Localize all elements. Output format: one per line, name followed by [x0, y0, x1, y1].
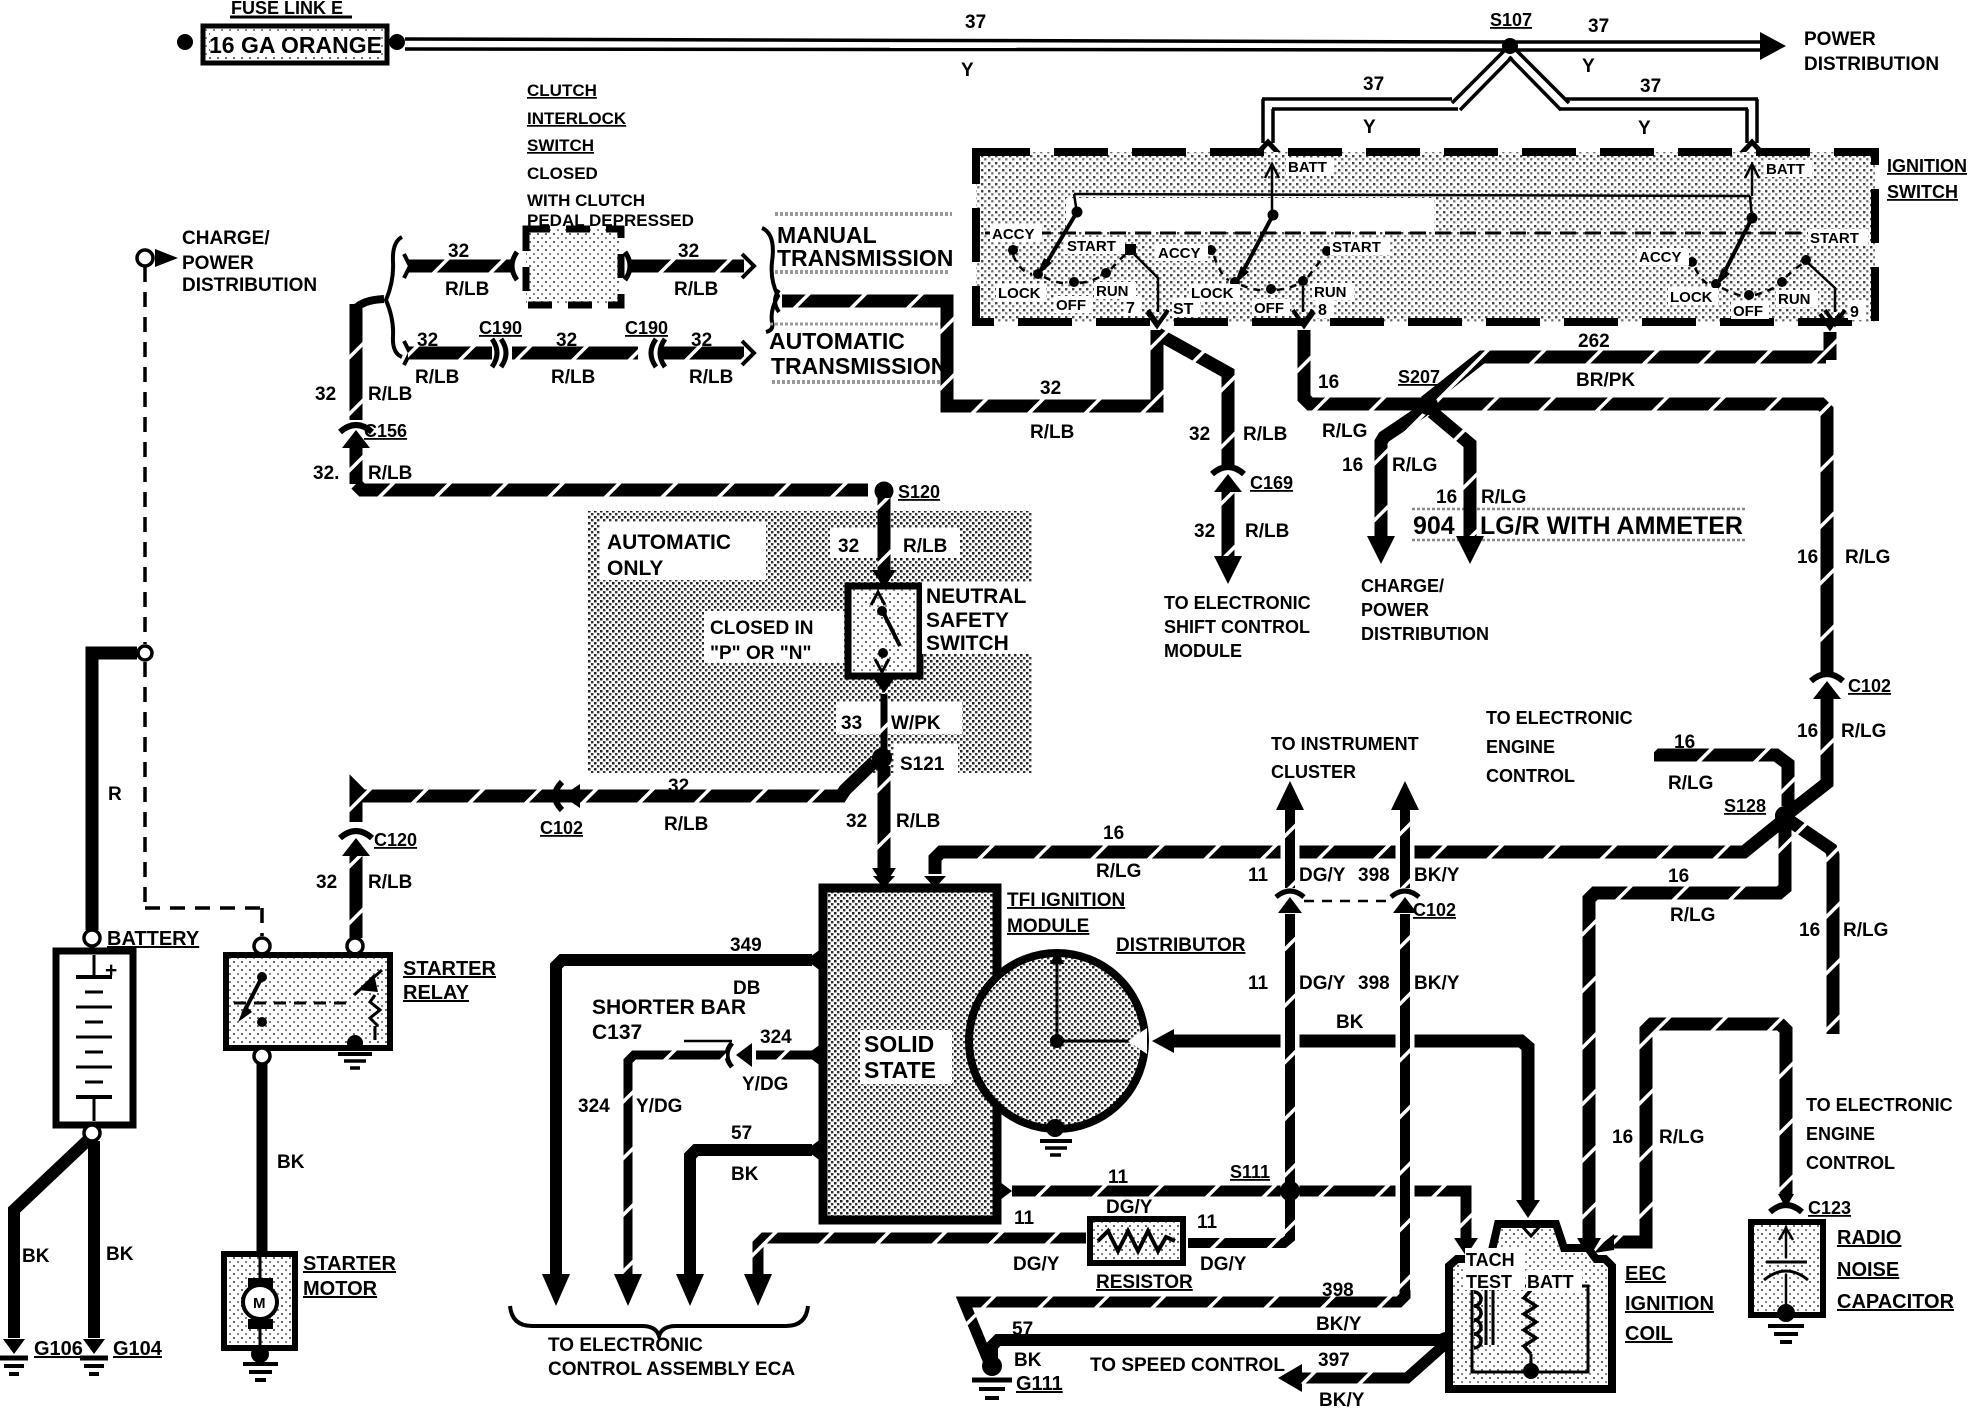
wire 33 W/PK NSS to S121: [874, 679, 894, 750]
svg-text:16: 16: [1668, 866, 1689, 887]
text block CLUTCH INTERLOCK SWITCH CLOSED WITH CLUTCH PEDAL DEPRESSED: [527, 81, 694, 230]
splice coil primary node: [1436, 1332, 1456, 1352]
svg-text:ACCY: ACCY: [1158, 245, 1201, 262]
svg-text:SWITCH: SWITCH: [926, 632, 1009, 655]
svg-text:16: 16: [1318, 372, 1339, 393]
ignition internal BATT bus line: [1074, 194, 1752, 218]
svg-text:R/LG: R/LG: [1843, 920, 1888, 941]
svg-text:EEC: EEC: [1625, 1263, 1666, 1285]
svg-text:Y: Y: [1582, 56, 1595, 77]
svg-text:S121: S121: [900, 754, 945, 775]
wire 32 auto transmission segment 3: [662, 341, 754, 365]
ground G104: [80, 1338, 163, 1374]
svg-text:STARTER: STARTER: [403, 958, 497, 980]
svg-text:POWER: POWER: [1361, 600, 1429, 620]
svg-text:G104: G104: [113, 1338, 163, 1360]
svg-text:IGNITION: IGNITION: [1887, 156, 1967, 176]
wire 324 Y/DG TFI via C137 to ECA: [614, 1041, 812, 1306]
svg-text:LOCK: LOCK: [1670, 289, 1713, 306]
wire 11 DG/Y instrument cluster vertical: [1188, 781, 1304, 1243]
connector C190 second: [625, 318, 668, 367]
starter relay box: [226, 938, 390, 1064]
svg-text:CLOSED IN: CLOSED IN: [710, 618, 813, 639]
connector C120: [340, 830, 417, 856]
svg-text:LG/R WITH AMMETER: LG/R WITH AMMETER: [1480, 512, 1743, 540]
battery: [56, 930, 133, 1141]
svg-text:SOLID: SOLID: [864, 1031, 934, 1057]
svg-text:32.: 32.: [313, 463, 339, 484]
text MANUAL TRANSMISSION (highlighted): [775, 214, 953, 272]
svg-text:C102: C102: [1413, 900, 1456, 920]
svg-text:OFF: OFF: [1056, 297, 1086, 314]
terminal arrow ST at ignition box: [1147, 312, 1167, 326]
svg-text:POWER: POWER: [1804, 29, 1876, 50]
svg-text:R/LG: R/LG: [1845, 547, 1890, 568]
wire 16 R/LG coil BATT up over to C123: [1594, 1024, 1794, 1253]
text AUTOMATIC TRANSMISSION (highlighted): [769, 324, 947, 382]
svg-text:324: 324: [760, 1027, 792, 1048]
wire BK distributor to EEC coil tower: [1152, 1029, 1540, 1218]
svg-text:NEUTRAL: NEUTRAL: [926, 585, 1026, 608]
connector C102 on horizontal wire: [540, 782, 583, 838]
text CHARGE/POWER DISTRIBUTION lower: [1361, 576, 1489, 644]
text RADIO NOISE CAPACITOR: [1837, 1227, 1955, 1313]
svg-text:7: 7: [1126, 300, 1135, 317]
svg-text:BK/Y: BK/Y: [1414, 865, 1460, 886]
svg-text:TO ELECTRONIC: TO ELECTRONIC: [548, 1335, 703, 1356]
svg-text:R/LG: R/LG: [1322, 421, 1367, 442]
wire 16 R/LG S128 down right branch: [1790, 821, 1833, 1034]
wire 16 R/LG terminal 8 to S207: [1304, 330, 1820, 404]
svg-text:C102: C102: [540, 818, 583, 838]
wire 32 R/LB horizontal to starter relay via C120: [356, 762, 874, 938]
wire 37 Y branch S107 to BATT terminal 2 (double line): [1509, 50, 1764, 155]
svg-text:398: 398: [1322, 1280, 1354, 1301]
svg-text:S207: S207: [1398, 367, 1440, 387]
svg-text:349: 349: [730, 935, 762, 956]
svg-text:CONTROL: CONTROL: [1486, 766, 1575, 786]
text SHORTER BAR C137: [592, 996, 746, 1044]
svg-text:57: 57: [731, 1123, 752, 1144]
distributor: [969, 950, 1147, 1129]
svg-text:904: 904: [1413, 512, 1455, 540]
svg-text:32: 32: [691, 330, 712, 351]
svg-text:G106: G106: [34, 1338, 83, 1360]
svg-text:R/LB: R/LB: [674, 279, 718, 300]
svg-text:BK: BK: [1336, 1012, 1364, 1033]
svg-text:BK: BK: [22, 1246, 50, 1267]
wire 398 BK/Y down to G111: [964, 1290, 1405, 1360]
svg-text:ENGINE: ENGINE: [1486, 737, 1555, 757]
svg-text:R/LG: R/LG: [1096, 861, 1141, 882]
node circle charge/power distribution: [137, 250, 153, 266]
svg-text:S128: S128: [1724, 796, 1766, 816]
text EEC IGNITION COIL: [1625, 1263, 1714, 1345]
svg-text:POWER: POWER: [182, 253, 254, 274]
svg-text:SHIFT CONTROL: SHIFT CONTROL: [1164, 617, 1310, 637]
wire 16 R/LG S207 right to C102 down right side: [1434, 404, 1827, 672]
svg-text:BATT: BATT: [1766, 161, 1805, 178]
ground under starter relay: [338, 1054, 372, 1068]
svg-text:SWITCH: SWITCH: [1887, 182, 1958, 202]
svg-text:IGNITION: IGNITION: [1625, 1293, 1714, 1315]
ground G106: [0, 1338, 83, 1374]
switch group 1 positions: [1008, 207, 1136, 288]
wire 397 BK/Y speed control: [1278, 1346, 1443, 1392]
svg-text:SAFETY: SAFETY: [926, 609, 1009, 632]
arrow charge/power distribution: [155, 249, 178, 267]
svg-text:R/LB: R/LB: [368, 384, 412, 405]
svg-text:32: 32: [1194, 521, 1215, 542]
connector C102 pair mid: [1276, 891, 1456, 920]
svg-text:MODULE: MODULE: [1164, 641, 1242, 661]
svg-text:DG/Y: DG/Y: [1299, 865, 1346, 886]
svg-text:LOCK: LOCK: [998, 285, 1041, 302]
text TACH TEST BATT: [1465, 1248, 1582, 1292]
svg-text:R/LB: R/LB: [689, 367, 733, 388]
splice S207 dot overlay: [1418, 395, 1438, 415]
group 2 labels: [1156, 238, 1390, 317]
switch group 2 lever: [1234, 215, 1273, 285]
svg-text:DISTRIBUTION: DISTRIBUTION: [182, 275, 317, 296]
svg-text:16: 16: [1797, 547, 1818, 568]
switch group 3 lever: [1715, 218, 1752, 287]
svg-text:16: 16: [1799, 920, 1820, 941]
svg-text:262: 262: [1578, 331, 1610, 352]
terminal label 9: [1848, 300, 1866, 321]
svg-text:ONLY: ONLY: [607, 557, 663, 580]
BATT terminal 2: [1745, 160, 1812, 196]
svg-text:R/LB: R/LB: [1245, 521, 1289, 542]
svg-text:SHORTER BAR: SHORTER BAR: [592, 996, 746, 1019]
text POWER DISTRIBUTION top right: [1804, 29, 1939, 75]
svg-text:ACCY: ACCY: [992, 226, 1035, 243]
wire 262 BR/PK S207 to terminal 9: [1425, 314, 1840, 402]
svg-text:R/LG: R/LG: [1659, 1127, 1704, 1148]
svg-text:C169: C169: [1250, 473, 1293, 493]
svg-text:C102: C102: [1848, 676, 1891, 696]
wire 32 R/LB C169 to shift module arrow: [1214, 492, 1242, 584]
svg-text:R: R: [108, 784, 122, 805]
resistor: [1090, 1219, 1193, 1293]
svg-text:32: 32: [678, 241, 699, 262]
svg-text:57: 57: [1012, 1319, 1033, 1340]
svg-text:S107: S107: [1490, 10, 1532, 30]
terminal arrow 8: [1294, 312, 1314, 326]
svg-text:16: 16: [1103, 823, 1124, 844]
text NEUTRAL SAFETY SWITCH: [922, 582, 1038, 655]
wire BK relay to starter motor: [257, 1064, 268, 1252]
svg-text:BK: BK: [1014, 1350, 1042, 1371]
brace to ECA: [510, 1306, 808, 1336]
svg-text:STARTER: STARTER: [303, 1253, 397, 1275]
svg-text:ST: ST: [1173, 301, 1194, 318]
svg-text:OFF: OFF: [1254, 300, 1284, 317]
group 2 RUN wire to terminal 8: [1293, 286, 1313, 324]
svg-text:16: 16: [1797, 721, 1818, 742]
splice S121: [872, 748, 945, 775]
svg-text:START: START: [1067, 238, 1116, 255]
splice S128 dot overlay: [1775, 806, 1795, 826]
wire 32 R/LB S120 to neutral safety switch: [872, 498, 896, 588]
text STARTER RELAY: [403, 958, 497, 1004]
svg-text:S120: S120: [898, 482, 940, 502]
group 1 START wire to terminal 7 ST: [1133, 253, 1168, 324]
splice S128: [1724, 796, 1795, 826]
wire 16 R/LG S207 down-left to charge arrow: [1367, 410, 1424, 564]
svg-text:DISTRIBUTION: DISTRIBUTION: [1361, 624, 1489, 644]
svg-text:33: 33: [841, 713, 862, 734]
svg-text:ACCY: ACCY: [1639, 249, 1682, 266]
wire 32 R/LB ST to C169: [1158, 334, 1228, 466]
shaded AUTOMATIC ONLY region: [588, 511, 1032, 774]
svg-text:RADIO: RADIO: [1837, 1227, 1901, 1249]
text TFI IGNITION MODULE: [1007, 890, 1125, 937]
group 1 labels: [990, 225, 1136, 314]
svg-text:32: 32: [1189, 424, 1210, 445]
svg-text:37: 37: [1640, 76, 1661, 97]
svg-text:AUTOMATIC: AUTOMATIC: [607, 531, 731, 554]
svg-text:C123: C123: [1808, 1198, 1851, 1218]
svg-text:R/LG: R/LG: [1670, 905, 1715, 926]
svg-text:9: 9: [1850, 304, 1859, 321]
highlight strip 904 LG/R WITH AMMETER: [1412, 508, 1746, 541]
svg-text:397: 397: [1318, 1350, 1350, 1371]
svg-text:Y: Y: [1638, 118, 1651, 139]
brace before MANUAL TRANSMISSION: [762, 228, 778, 332]
svg-text:CLOSED: CLOSED: [527, 164, 598, 183]
svg-text:CAPACITOR: CAPACITOR: [1837, 1291, 1955, 1313]
svg-text:M: M: [253, 1295, 266, 1312]
fuse link E label: [230, 0, 352, 18]
dashed wire battery sense R: [145, 267, 262, 936]
wire 32 R/LB manual transmission right segment: [625, 252, 754, 280]
svg-text:C120: C120: [374, 830, 417, 850]
wire 37 S107 to power distribution arrow: [1510, 32, 1786, 60]
svg-text:32: 32: [315, 384, 336, 405]
svg-text:S111: S111: [1230, 1162, 1270, 1182]
svg-text:37: 37: [1588, 16, 1609, 37]
wire 32 R/LB S121 down to TFI module: [872, 766, 896, 886]
wire S111 to TACH: [1294, 1191, 1478, 1256]
wire 16 R/LG S128 down to coil BATT: [1577, 826, 1785, 1258]
svg-text:TRANSMISSION: TRANSMISSION: [771, 353, 947, 379]
radio noise capacitor: [1751, 1222, 1823, 1315]
svg-text:ENGINE: ENGINE: [1806, 1124, 1875, 1144]
connector C169: [1212, 467, 1293, 493]
svg-text:LOCK: LOCK: [1191, 285, 1234, 302]
svg-text:OFF: OFF: [1733, 303, 1763, 320]
svg-text:BK/Y: BK/Y: [1414, 973, 1460, 994]
svg-text:BK/Y: BK/Y: [1319, 1390, 1365, 1408]
svg-text:DISTRIBUTION: DISTRIBUTION: [1804, 54, 1939, 75]
svg-text:CONTROL: CONTROL: [1806, 1153, 1895, 1173]
EEC ignition coil: [1449, 1224, 1612, 1389]
TFI input terminal arrows top: [873, 876, 895, 888]
svg-text:"P" OR "N": "P" OR "N": [710, 643, 812, 664]
text TO ELECTRONIC SHIFT CONTROL MODULE: [1164, 593, 1311, 661]
svg-text:R/LB: R/LB: [903, 536, 947, 557]
starter motor box: [224, 1254, 295, 1348]
wire 11 DG/Y lower from resistor to ECA: [744, 1238, 1086, 1306]
svg-text:16: 16: [1612, 1127, 1633, 1148]
svg-text:CLUTCH: CLUTCH: [527, 81, 597, 100]
switch group 2 positions: [1206, 210, 1332, 295]
svg-text:11: 11: [1248, 865, 1269, 886]
splice S111: [1230, 1162, 1300, 1201]
wire 57 BK TFI to ECA: [676, 1150, 812, 1306]
svg-text:BATT: BATT: [1527, 1272, 1574, 1292]
svg-text:TO ELECTRONIC: TO ELECTRONIC: [1806, 1095, 1953, 1115]
ground under starter motor: [243, 1345, 278, 1380]
svg-text:CHARGE/: CHARGE/: [182, 228, 270, 249]
neutral safety switch box: [848, 586, 920, 676]
svg-text:R/LB: R/LB: [445, 279, 489, 300]
svg-text:11: 11: [1197, 1212, 1218, 1233]
wire BK battery to G106: [14, 1140, 88, 1338]
svg-text:DG/Y: DG/Y: [1106, 1197, 1153, 1218]
svg-text:Y: Y: [961, 60, 974, 81]
text IGNITION SWITCH: [1887, 156, 1967, 202]
svg-text:CHARGE/: CHARGE/: [1361, 576, 1444, 596]
svg-text:C156: C156: [364, 421, 407, 441]
splice S107: [1490, 10, 1532, 54]
connector C190 first: [479, 318, 522, 367]
svg-text:BATT: BATT: [1288, 159, 1327, 176]
svg-text:BK: BK: [106, 1244, 134, 1265]
svg-text:START: START: [1332, 239, 1381, 256]
wire 37 Y branch S107 to BATT terminal 1 (double line): [1256, 50, 1512, 155]
svg-text:32: 32: [668, 776, 689, 797]
svg-text:R/LG: R/LG: [1392, 455, 1437, 476]
TFI ignition module box: [823, 888, 997, 1220]
wire 32 R/LB transmissions junction down to C156 and S120: [356, 299, 868, 490]
wire 16 R/LG stub to electronic engine control upper: [1654, 755, 1788, 806]
svg-text:CONTROL ASSEMBLY ECA: CONTROL ASSEMBLY ECA: [548, 1359, 795, 1380]
svg-text:INTERLOCK: INTERLOCK: [527, 109, 627, 128]
wire 11 DG/Y TFI right to S111: [996, 1179, 1286, 1203]
wire 16 R/LG C102 to S128: [1790, 699, 1827, 812]
svg-text:16: 16: [1674, 732, 1695, 753]
svg-text:AUTOMATIC: AUTOMATIC: [769, 328, 905, 354]
svg-text:W/PK: W/PK: [891, 713, 941, 734]
svg-text:START: START: [1810, 230, 1859, 247]
svg-text:TEST: TEST: [1466, 1272, 1512, 1292]
wire BK battery to G104: [88, 1141, 100, 1338]
svg-text:R/LG: R/LG: [1668, 773, 1713, 794]
svg-text:TACH: TACH: [1466, 1250, 1515, 1270]
svg-text:R/LB: R/LB: [664, 814, 708, 835]
svg-text:BATTERY: BATTERY: [107, 928, 200, 950]
wire 32 R/LB manual transmission left segment: [404, 252, 517, 280]
svg-text:8: 8: [1318, 302, 1327, 319]
svg-text:MODULE: MODULE: [1007, 916, 1089, 937]
svg-text:16: 16: [1342, 455, 1363, 476]
svg-text:DISTRIBUTOR: DISTRIBUTOR: [1116, 935, 1246, 956]
svg-text:398: 398: [1358, 973, 1390, 994]
svg-text:BR/PK: BR/PK: [1576, 370, 1635, 391]
svg-text:32: 32: [556, 330, 577, 351]
svg-text:11: 11: [1248, 973, 1269, 994]
svg-text:11: 11: [1108, 1167, 1129, 1188]
svg-text:16: 16: [1436, 487, 1457, 508]
svg-text:BK: BK: [731, 1164, 759, 1185]
svg-text:FUSE LINK E: FUSE LINK E: [231, 0, 343, 18]
clutch interlock switch box: [526, 229, 621, 305]
svg-text:32: 32: [1040, 378, 1061, 399]
BATT terminal 1: [1265, 158, 1334, 194]
svg-text:32: 32: [838, 536, 859, 557]
left brace grouping transmission wires: [386, 237, 402, 357]
text TO ELECTRONIC ENGINE CONTROL lower right: [1806, 1095, 1953, 1173]
text CLOSED IN "P" OR "N": [710, 618, 813, 664]
connector C123: [1770, 1198, 1851, 1218]
svg-text:16 GA ORANGE: 16 GA ORANGE: [209, 32, 382, 58]
svg-text:TFI IGNITION: TFI IGNITION: [1007, 890, 1125, 911]
svg-text:11: 11: [1014, 1208, 1035, 1229]
svg-text:RUN: RUN: [1096, 283, 1129, 300]
svg-text:TO ELECTRONIC: TO ELECTRONIC: [1164, 593, 1311, 613]
svg-text:DG/Y: DG/Y: [1200, 1254, 1247, 1275]
svg-text:32: 32: [448, 241, 469, 262]
wire 16 R/LG TFI to S128 long run: [935, 822, 1781, 874]
ground under distributor: [1040, 1119, 1072, 1155]
node circle R junction: [138, 646, 152, 660]
svg-text:TRANSMISSION: TRANSMISSION: [777, 245, 953, 271]
text CHARGE/POWER DISTRIBUTION top left: [182, 228, 317, 296]
svg-text:G111: G111: [1016, 1373, 1063, 1395]
fuse link box 16 GA ORANGE: [203, 26, 387, 63]
svg-text:NOISE: NOISE: [1837, 1259, 1899, 1281]
svg-text:BK: BK: [277, 1152, 305, 1173]
TFI terminal chevrons left: [806, 948, 822, 972]
svg-text:R/LG: R/LG: [1481, 487, 1526, 508]
svg-text:TO ELECTRONIC: TO ELECTRONIC: [1486, 708, 1633, 728]
terminal label 8: [1316, 298, 1334, 319]
wire 32 auto transmission segment 1: [404, 341, 492, 365]
svg-text:BK/Y: BK/Y: [1316, 1314, 1362, 1335]
svg-text:37: 37: [965, 12, 986, 33]
svg-text:DG/Y: DG/Y: [1299, 973, 1346, 994]
terminal labels 7 ST: [1124, 296, 1200, 318]
svg-text:R/LB: R/LB: [368, 872, 412, 893]
ignition switch box: [976, 152, 1875, 322]
svg-text:RUN: RUN: [1778, 291, 1811, 308]
splice S207: [1398, 367, 1440, 415]
wire 349 DB TFI to ECA: [542, 960, 812, 1306]
wire 32 R/LB below manual text to ignition ST: [775, 290, 1157, 406]
svg-text:R/LB: R/LB: [551, 367, 595, 388]
svg-text:C190: C190: [625, 318, 668, 338]
wire 16 R/LG S207 down-right with ammeter: [1432, 412, 1484, 564]
svg-text:Y/DG: Y/DG: [636, 1096, 682, 1117]
text AUTOMATIC ONLY: [607, 531, 731, 580]
svg-text:C137: C137: [592, 1021, 642, 1044]
svg-text:TO INSTRUMENT: TO INSTRUMENT: [1271, 734, 1419, 754]
svg-text:R/LB: R/LB: [1030, 422, 1074, 443]
svg-text:C190: C190: [479, 318, 522, 338]
svg-text:R/LB: R/LB: [415, 367, 459, 388]
svg-text:32: 32: [417, 330, 438, 351]
svg-text:R/LB: R/LB: [368, 463, 412, 484]
svg-text:R/LB: R/LB: [896, 811, 940, 832]
group 3 labels: [1637, 229, 1868, 320]
text TO INSTRUMENT CLUSTER: [1271, 734, 1419, 782]
svg-text:MOTOR: MOTOR: [303, 1278, 378, 1300]
wire 37 Y fuse link to S107 (double line): [405, 39, 1510, 50]
splice S120: [875, 482, 941, 503]
wire 32 auto transmission segment 2: [512, 347, 638, 360]
